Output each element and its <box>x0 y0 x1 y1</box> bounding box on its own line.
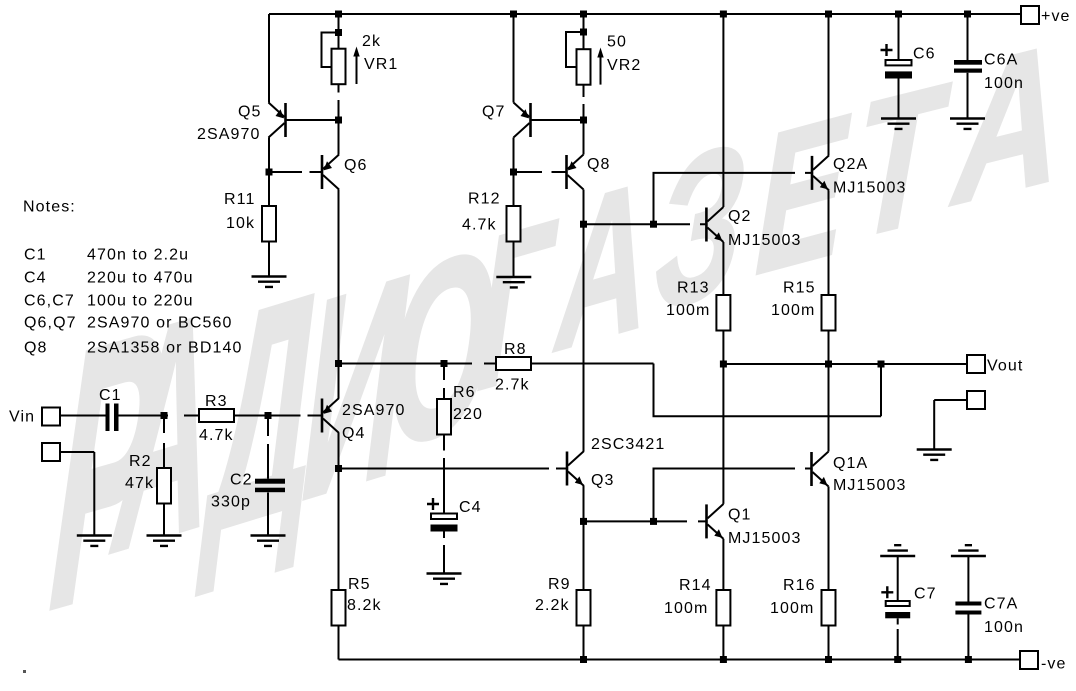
svg-text:MJ15003: MJ15003 <box>833 477 907 494</box>
svg-text:VR2: VR2 <box>607 57 641 74</box>
svg-text:VR1: VR1 <box>364 56 398 73</box>
svg-text:2SA970: 2SA970 <box>197 126 261 143</box>
svg-text:100m: 100m <box>666 302 710 319</box>
svg-text:Vin: Vin <box>9 409 35 426</box>
svg-text:MJ15003: MJ15003 <box>833 180 907 197</box>
svg-text:330p: 330p <box>211 494 251 511</box>
svg-text:R12: R12 <box>468 191 501 208</box>
svg-text:Q1A: Q1A <box>833 455 868 472</box>
svg-text:C4: C4 <box>24 270 47 287</box>
svg-text:MJ15003: MJ15003 <box>728 232 802 249</box>
svg-text:R15: R15 <box>783 280 816 297</box>
svg-text:C7: C7 <box>914 586 937 603</box>
svg-text:Q6,Q7: Q6,Q7 <box>24 315 77 332</box>
svg-text:Vout: Vout <box>987 358 1023 375</box>
svg-text:100n: 100n <box>984 619 1024 636</box>
svg-text:Q7: Q7 <box>482 104 506 121</box>
svg-text:C2: C2 <box>230 472 253 489</box>
svg-text:2.7k: 2.7k <box>495 377 530 394</box>
svg-text:2SA970 or BC560: 2SA970 or BC560 <box>87 315 232 332</box>
svg-text:4.7k: 4.7k <box>462 217 497 234</box>
svg-text:C4: C4 <box>459 499 482 516</box>
svg-text:+ve: +ve <box>1041 8 1071 25</box>
svg-text:4.7k: 4.7k <box>199 427 234 444</box>
svg-text:Notes:: Notes: <box>23 199 76 216</box>
svg-text:100m: 100m <box>664 600 708 617</box>
svg-text:47k: 47k <box>125 475 154 492</box>
svg-text:C6: C6 <box>913 46 936 63</box>
svg-text:C6A: C6A <box>984 52 1018 69</box>
svg-text:2SC3421: 2SC3421 <box>591 436 665 453</box>
svg-text:50: 50 <box>607 34 627 51</box>
svg-text:R2: R2 <box>129 453 152 470</box>
svg-text:R11: R11 <box>224 191 255 208</box>
svg-text:Q8: Q8 <box>587 156 611 173</box>
svg-text:Q5: Q5 <box>238 104 262 121</box>
svg-text:100m: 100m <box>770 600 814 617</box>
svg-text:2SA1358 or BD140: 2SA1358 or BD140 <box>87 340 242 357</box>
svg-text:C7A: C7A <box>984 596 1018 613</box>
svg-text:470n to 2.2u: 470n to 2.2u <box>87 247 189 264</box>
svg-text:R8: R8 <box>504 341 527 358</box>
svg-text:220: 220 <box>453 406 483 423</box>
svg-text:C1: C1 <box>99 387 122 404</box>
svg-text:R13: R13 <box>677 280 710 297</box>
svg-text:MJ15003: MJ15003 <box>728 530 802 547</box>
svg-text:Q6: Q6 <box>344 157 368 174</box>
svg-text:Q8: Q8 <box>24 340 48 357</box>
svg-text:R16: R16 <box>783 577 816 594</box>
svg-text:8.2k: 8.2k <box>347 597 382 614</box>
svg-text:Q2: Q2 <box>728 208 752 225</box>
svg-text:-ve: -ve <box>1041 656 1067 673</box>
svg-text:Q2A: Q2A <box>833 156 868 173</box>
svg-text:R14: R14 <box>679 577 712 594</box>
svg-text:R6: R6 <box>453 384 476 401</box>
svg-text:10k: 10k <box>226 215 255 232</box>
svg-text:R9: R9 <box>548 576 571 593</box>
svg-text:R3: R3 <box>205 393 228 410</box>
svg-text:2k: 2k <box>362 33 381 50</box>
svg-text:2SA970: 2SA970 <box>342 402 406 419</box>
svg-text:Q3: Q3 <box>591 472 615 489</box>
svg-text:Q4: Q4 <box>342 425 366 442</box>
svg-text:Q1: Q1 <box>728 507 752 524</box>
svg-text:220u to 470u: 220u to 470u <box>87 270 194 287</box>
svg-text:C6,C7: C6,C7 <box>24 293 75 310</box>
svg-text:100u to 220u: 100u to 220u <box>87 293 194 310</box>
svg-text:100n: 100n <box>984 75 1024 92</box>
svg-text:C1: C1 <box>24 247 47 264</box>
svg-text:R5: R5 <box>348 576 371 593</box>
svg-text:2.2k: 2.2k <box>535 597 570 614</box>
svg-text:100m: 100m <box>771 302 815 319</box>
